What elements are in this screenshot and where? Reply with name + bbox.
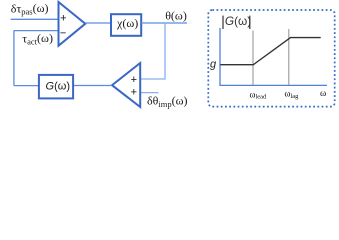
- block G(w) feedback gain: [39, 75, 73, 99]
- wire: tau-act feedback into summing junction S1 minus: [14, 30, 58, 32]
- wire: riser to G(w) box input: [14, 85, 40, 87]
- wire: theta node drop to summing junction S2: [141, 23, 165, 79]
- svg-text:G(ω): G(ω): [46, 80, 70, 92]
- svg-text:+: +: [60, 13, 66, 25]
- wire: delta-theta-imp stub into S2: [140, 92, 159, 94]
- tick label w-lag: [285, 89, 300, 100]
- svg-text:g: g: [210, 59, 217, 71]
- svg-text:τact(ω): τact(ω): [22, 31, 53, 47]
- wire: left vertical feedback riser: [13, 31, 15, 86]
- label G(w): [46, 80, 70, 92]
- marker line at w-lead: [252, 31, 254, 86]
- wire: S2 output to G(w) box: [74, 85, 113, 87]
- svg-text:+: +: [131, 74, 137, 86]
- svg-text:ω: ω: [320, 89, 326, 99]
- plot label |G(w)|: [222, 14, 251, 29]
- svg-text:−: −: [60, 27, 66, 39]
- label: delta-tau-pas(w) input: [11, 1, 49, 17]
- dotted frame around gain plot: [208, 10, 334, 107]
- block chi(w): [111, 14, 141, 36]
- svg-text:+: +: [131, 86, 137, 98]
- wire: S1 output to chi box: [85, 22, 111, 24]
- gain curve |G(w)| piecewise: [220, 38, 320, 65]
- svg-text:χ(ω): χ(ω): [116, 16, 138, 30]
- S1 minus sign: [60, 27, 66, 39]
- label: tau-act(w) feedback signal: [22, 31, 53, 47]
- plot x-axis: [219, 84, 327, 86]
- svg-text:G(ω): G(ω): [225, 14, 251, 28]
- wire: delta-tau-pas input to summing junction S1 plus: [11, 18, 58, 20]
- plot y-axis: [219, 28, 221, 85]
- S2 upper plus sign: [131, 74, 137, 86]
- summing junction S2 (left-pointing triangle, + and + inputs): [112, 63, 140, 107]
- S2 lower plus sign: [131, 86, 137, 98]
- plot label g on y-axis: [210, 59, 217, 71]
- label delta-theta-imp(w): [147, 94, 188, 110]
- tick label w-lead: [250, 89, 268, 100]
- svg-text:θ(ω): θ(ω): [165, 9, 187, 23]
- wire: chi output to theta node and end: [141, 22, 187, 24]
- label theta(w) output: [165, 9, 187, 23]
- label chi(w): [116, 16, 138, 30]
- axis label w: [320, 89, 326, 99]
- S1 plus sign: [60, 13, 66, 25]
- marker line at w-lag: [288, 29, 290, 85]
- summing junction S1 (triangle, + and - inputs): [59, 2, 86, 46]
